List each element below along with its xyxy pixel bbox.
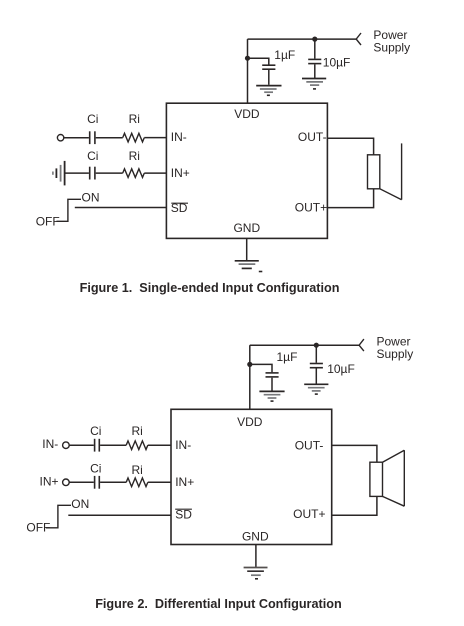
resistor Ri fig2 row2 <box>126 478 148 487</box>
svg-text:10µF: 10µF <box>323 55 351 69</box>
capacitor Ci fig2 row1 <box>95 439 100 452</box>
capacitor Ci fig2 row2 <box>95 476 100 489</box>
junction node rail/10uF fig1 <box>312 37 317 42</box>
svg-text:1µF: 1µF <box>277 350 298 364</box>
label Power Supply fig2 <box>377 335 414 362</box>
wire 10uF to ground fig2 <box>315 369 317 384</box>
svg-text:IN+: IN+ <box>175 475 194 489</box>
ground below 1uF fig2 <box>259 391 284 401</box>
svg-text:IN-: IN- <box>171 130 187 144</box>
junction node VDD/1uF fig1 <box>245 56 250 61</box>
capacitor C2 10uF fig1 <box>308 59 321 63</box>
wire power rail fig2 <box>250 344 359 346</box>
wire 1uF to ground fig2 <box>271 378 273 391</box>
svg-text:GND: GND <box>233 221 260 235</box>
svg-text:Ri: Ri <box>129 149 140 163</box>
svg-text:VDD: VDD <box>234 107 260 121</box>
wire terminal to Ci fig2 row2 <box>69 481 94 483</box>
wire VDD vertical fig1 <box>247 39 249 103</box>
label Power Supply fig1 <box>373 28 410 55</box>
wire OUT- to speaker fig2 <box>332 445 377 462</box>
wire to 1uF fig1 <box>248 58 269 64</box>
wire switch to SD pin fig1 <box>75 207 167 209</box>
ground below 10uF fig2 <box>304 384 328 394</box>
svg-text:1µF: 1µF <box>274 48 295 62</box>
wire terminal to Ci fig2 row1 <box>69 444 94 446</box>
ground below 1uF fig1 <box>256 86 281 96</box>
svg-text:IN-: IN- <box>42 437 58 451</box>
resistor Ri fig1 row2 <box>123 169 145 178</box>
ground sideways at IN+ input fig1 <box>53 161 65 186</box>
svg-text:IN+: IN+ <box>171 166 190 180</box>
wire OUT+ to speaker fig1 <box>327 189 373 208</box>
wire Ci to Ri fig2 row2 <box>100 481 126 483</box>
wire terminal to Ci fig1 row1 <box>64 137 89 139</box>
wire to 10uF fig1 <box>314 39 316 59</box>
speaker driver rect fig1 <box>368 155 380 189</box>
svg-text:Ci: Ci <box>90 462 101 476</box>
svg-text:VDD: VDD <box>237 415 263 429</box>
speaker cone fig2 <box>383 450 405 506</box>
speaker cone fig1 <box>380 143 402 199</box>
svg-text:OUT-: OUT- <box>298 130 327 144</box>
svg-text:OFF: OFF <box>36 214 60 228</box>
capacitor C1 1uF fig1 <box>262 65 275 69</box>
wire Ri to IN- pin fig1 <box>144 137 166 139</box>
resistor Ri fig1 row1 <box>123 133 145 142</box>
switch ON/OFF fig2 <box>46 505 71 528</box>
wire Ri to IN+ pin fig2 <box>148 481 171 483</box>
op-amp U2 audio amplifier IC fig2 <box>171 409 332 544</box>
junction node VDD/1uF fig2 <box>247 362 252 367</box>
svg-text:Ri: Ri <box>132 463 143 477</box>
svg-text:Ri: Ri <box>129 112 140 126</box>
wire Ci to Ri fig1 row1 <box>96 137 123 139</box>
wire OUT+ to speaker fig2 <box>332 496 377 515</box>
wire Ci to Ri fig2 row1 <box>100 444 126 446</box>
ground below GND pin fig2 <box>244 568 268 579</box>
wire power rail fig1 <box>248 38 357 40</box>
resistor Ri fig2 row1 <box>126 441 148 450</box>
svg-text:Figure 2. Differential Input: Figure 2. Differential Input Configurati… <box>95 597 342 611</box>
svg-text:Ci: Ci <box>90 424 101 438</box>
svg-text:Ci: Ci <box>87 149 98 163</box>
svg-text:OUT+: OUT+ <box>295 201 327 215</box>
wire Ci to Ri fig1 row2 <box>96 172 123 174</box>
power supply connector chevron fig2 <box>359 339 364 351</box>
wire Ri to IN- pin fig2 <box>148 444 171 446</box>
svg-text:OUT-: OUT- <box>295 438 324 452</box>
junction node rail/10uF fig2 <box>314 343 319 348</box>
input terminal circle IN- fig1 <box>57 135 63 141</box>
svg-text:Figure 1. Single-ended Input: Figure 1. Single-ended Input Configurati… <box>80 281 340 295</box>
capacitor C2 10uF fig2 <box>310 364 323 368</box>
svg-text:IN+: IN+ <box>40 474 59 488</box>
svg-text:Supply: Supply <box>373 41 410 55</box>
wire to 1uF fig2 <box>250 364 272 372</box>
speaker driver rect fig2 <box>370 462 383 496</box>
svg-text:OUT+: OUT+ <box>293 507 325 521</box>
svg-text:Supply: Supply <box>377 347 414 361</box>
svg-text:10µF: 10µF <box>327 362 355 376</box>
wire switch to SD pin fig2 <box>68 514 171 516</box>
wire ground to Ci fig1 row2 <box>65 172 89 174</box>
capacitor C1 1uF fig2 <box>266 373 279 377</box>
svg-text:Ri: Ri <box>132 424 143 438</box>
svg-text:GND: GND <box>242 530 269 544</box>
ground below GND pin fig1 <box>235 261 263 272</box>
wire GND pin to ground fig2 <box>255 545 257 568</box>
power supply connector chevron fig1 <box>356 33 361 45</box>
wire 10uF to ground fig1 <box>314 64 316 78</box>
wire GND pin to ground fig1 <box>246 238 248 260</box>
svg-text:ON: ON <box>71 497 89 511</box>
capacitor Ci fig1 row2 <box>90 167 95 180</box>
input terminal circle IN- fig2 <box>63 442 70 449</box>
svg-text:IN-: IN- <box>175 438 191 452</box>
wire to 10uF fig2 <box>315 345 317 363</box>
svg-text:SD: SD <box>175 508 192 522</box>
op-amp U1 audio amplifier IC fig1 <box>166 103 327 238</box>
input terminal circle IN+ fig2 <box>63 479 70 486</box>
svg-text:ON: ON <box>82 191 100 205</box>
switch ON/OFF fig1 <box>56 199 81 221</box>
capacitor Ci fig1 row1 <box>90 131 95 144</box>
wire Ri to IN+ pin fig1 <box>144 172 166 174</box>
wire VDD vertical fig2 <box>249 345 251 409</box>
wire OUT- to speaker fig1 <box>327 138 373 155</box>
wire 1uF to ground fig1 <box>268 70 270 85</box>
svg-text:OFF: OFF <box>26 521 50 535</box>
ground below 10uF fig1 <box>302 79 326 89</box>
svg-text:Ci: Ci <box>87 112 98 126</box>
